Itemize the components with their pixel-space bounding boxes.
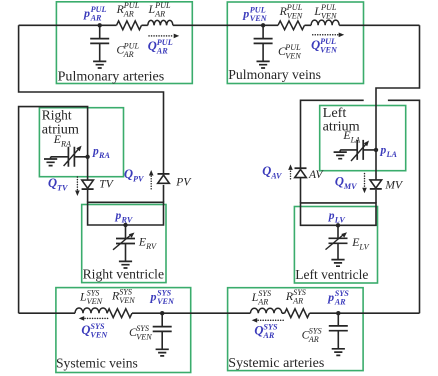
svg-text:p: p — [115, 210, 122, 222]
capacitor C_AR^SYS — [337, 313, 339, 326]
ground of C_AR^SYS — [332, 349, 345, 356]
svg-text:p: p — [92, 146, 99, 158]
elastance E_RV variable capacitor — [125, 225, 127, 238]
svg-text:TV: TV — [99, 179, 114, 191]
svg-text:p: p — [328, 210, 335, 222]
svg-text:LA: LA — [386, 150, 398, 159]
flow arrow Q_VEN^PUL — [313, 34, 339, 36]
resistor R_AR^PUL — [117, 21, 142, 30]
flow arrow Q_PV — [150, 176, 152, 189]
svg-text:AR: AR — [292, 296, 303, 305]
flow arrow Q_AR^SYS — [257, 319, 283, 321]
svg-text:AR: AR — [123, 50, 134, 59]
box Left ventricle — [294, 207, 377, 284]
elastance E_LV variable capacitor — [337, 225, 339, 238]
svg-text:RV: RV — [145, 242, 157, 251]
svg-text:VEN: VEN — [320, 45, 338, 54]
svg-text:LV: LV — [334, 215, 347, 224]
flow arrow Q_TV — [76, 177, 78, 191]
svg-text:VEN: VEN — [136, 332, 152, 341]
node p_AR^PUL — [98, 23, 102, 27]
svg-text:AV: AV — [308, 169, 324, 181]
svg-text:Q: Q — [148, 39, 157, 53]
svg-text:Right ventricle: Right ventricle — [83, 268, 164, 283]
svg-text:Pulmonary veins: Pulmonary veins — [228, 68, 321, 83]
inductor L_VEN^SYS — [75, 308, 107, 313]
node p_VEN^PUL — [261, 23, 265, 27]
node p_VEN^SYS — [160, 311, 164, 315]
svg-text:AR: AR — [308, 335, 319, 344]
resistor R_AR^SYS — [285, 309, 310, 318]
svg-text:AR: AR — [334, 297, 346, 306]
resistor R_VEN^SYS — [107, 309, 132, 318]
box Right atrium — [39, 108, 123, 177]
box Systemic veins — [56, 288, 191, 373]
svg-text:Q: Q — [335, 175, 344, 189]
ground of C_AR^PUL — [93, 61, 106, 68]
svg-text:Q: Q — [48, 176, 57, 190]
flow arrow Q_MV — [364, 174, 366, 188]
svg-text:L: L — [79, 290, 87, 304]
svg-text:VEN: VEN — [287, 11, 303, 20]
diode AV aortic valve — [295, 167, 307, 169]
svg-text:VEN: VEN — [90, 330, 108, 339]
svg-text:TV: TV — [57, 183, 69, 192]
diode PV pulmonary valve — [158, 173, 170, 175]
resistor R_VEN^PUL — [278, 21, 305, 30]
node box p_RV wires — [88, 202, 164, 225]
svg-text:p: p — [242, 7, 249, 21]
node at E_RV — [123, 223, 127, 227]
elastance E_LA variable capacitor — [340, 149, 376, 151]
box Systemic arteries — [228, 288, 364, 371]
svg-text:Pulmonary arteries: Pulmonary arteries — [58, 70, 165, 85]
svg-text:PV: PV — [175, 177, 192, 189]
box Right ventricle — [82, 205, 166, 283]
node p_LA — [374, 148, 378, 152]
wire bottom systemic line — [19, 312, 420, 314]
node at E_LV — [336, 223, 340, 227]
svg-text:atrium: atrium — [323, 119, 360, 134]
svg-text:Q: Q — [254, 324, 263, 338]
svg-text:VEN: VEN — [250, 14, 268, 23]
node p_AR^SYS — [336, 311, 340, 315]
inductor L_AR^SYS — [250, 308, 281, 313]
inductor L_AR^PUL — [148, 20, 173, 25]
ground of E_RV — [119, 261, 132, 268]
wire right pulmonary veins to left atrium — [376, 25, 420, 203]
svg-text:AR: AR — [90, 13, 102, 22]
box Pulmonary arteries — [56, 2, 192, 84]
svg-text:VEN: VEN — [119, 296, 135, 305]
svg-text:Q: Q — [311, 38, 320, 52]
svg-text:L: L — [313, 4, 321, 18]
svg-text:RA: RA — [98, 151, 110, 160]
elastance E_RA variable capacitor — [51, 156, 88, 158]
svg-text:LA: LA — [350, 135, 362, 144]
inductor L_VEN^PUL — [311, 20, 339, 25]
diode TV tricuspid valve — [82, 180, 94, 188]
svg-text:p: p — [150, 290, 157, 304]
wire top main pulmonary line — [19, 24, 420, 26]
svg-text:p: p — [380, 145, 387, 157]
box Pulmonary veins — [227, 2, 363, 84]
svg-text:AR: AR — [123, 9, 134, 18]
svg-text:PV: PV — [133, 174, 145, 183]
svg-text:L: L — [148, 2, 156, 16]
box Left atrium — [320, 106, 406, 171]
flow arrow Q_AV — [290, 170, 292, 179]
node box p_LV wires — [301, 203, 377, 225]
ground of E_LA — [339, 150, 341, 152]
ground of C_VEN^PUL — [257, 61, 270, 68]
svg-text:Systemic veins: Systemic veins — [56, 357, 138, 372]
svg-text:p: p — [83, 6, 90, 20]
svg-text:Left ventricle: Left ventricle — [295, 268, 368, 283]
svg-text:VEN: VEN — [285, 51, 301, 60]
svg-text:AR: AR — [262, 331, 274, 340]
svg-text:Systemic arteries: Systemic arteries — [228, 356, 324, 371]
capacitor C_VEN^SYS — [161, 313, 163, 326]
flow arrow Q_AR^PUL — [149, 35, 174, 37]
wire left PV-to-PA loop — [19, 25, 164, 202]
wire aortic valve to systemic arteries — [301, 100, 420, 313]
svg-text:Q: Q — [262, 164, 271, 178]
node p_RA — [85, 155, 89, 159]
svg-text:AR: AR — [257, 297, 268, 306]
svg-text:AR: AR — [156, 46, 168, 55]
svg-text:AV: AV — [270, 171, 283, 180]
svg-text:MV: MV — [384, 180, 404, 192]
svg-text:VEN: VEN — [157, 297, 175, 306]
ground of C_VEN^SYS — [156, 349, 169, 356]
capacitor C_AR^PUL — [99, 25, 101, 38]
svg-text:VEN: VEN — [321, 11, 337, 20]
capacitor C_VEN^PUL — [262, 25, 264, 38]
ground of E_LV — [331, 260, 344, 267]
svg-text:AR: AR — [154, 9, 165, 18]
wire systemic veins to right atrium — [19, 107, 88, 314]
svg-text:LV: LV — [358, 242, 369, 251]
svg-text:Q: Q — [81, 323, 90, 337]
svg-text:MV: MV — [343, 182, 358, 191]
svg-text:RV: RV — [121, 215, 134, 224]
diode MV mitral valve — [370, 180, 382, 188]
svg-text:p: p — [327, 290, 334, 304]
svg-text:VEN: VEN — [87, 297, 103, 306]
svg-text:Q: Q — [124, 167, 133, 181]
svg-text:RA: RA — [60, 140, 72, 149]
flow arrow Q_VEN^SYS — [84, 317, 107, 319]
svg-text:L: L — [251, 290, 259, 304]
ground of E_RA — [50, 157, 52, 159]
